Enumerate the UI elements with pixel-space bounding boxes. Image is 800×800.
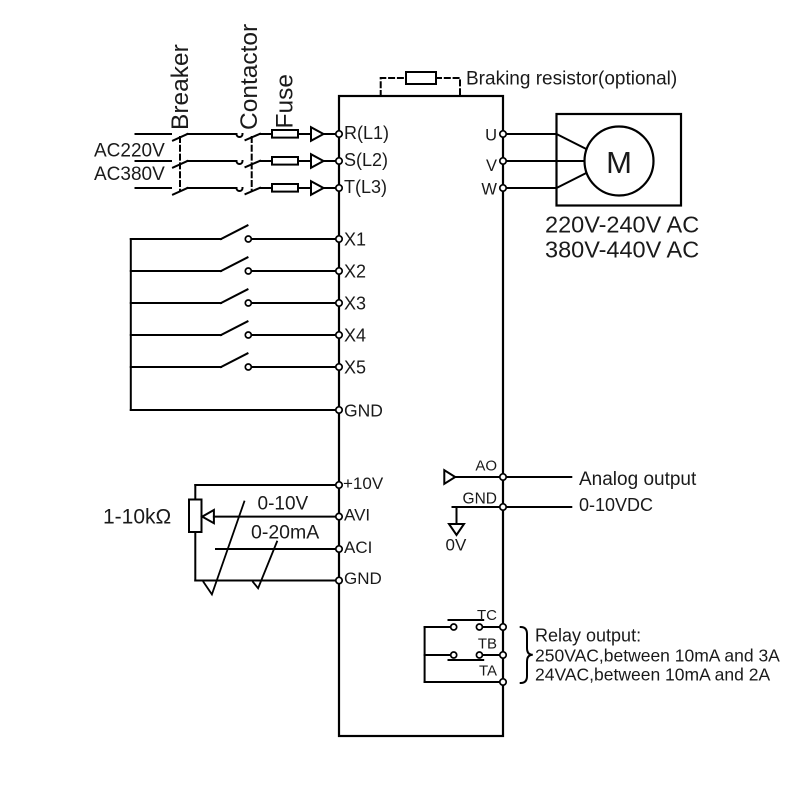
svg-text:1-10kΩ: 1-10kΩ	[103, 506, 171, 529]
contactor pole 3 arc	[237, 188, 243, 191]
svg-text:T(L3): T(L3)	[344, 177, 387, 197]
arrow into R(L1)	[311, 127, 324, 141]
breaker gang dashed link	[179, 137, 181, 191]
X input bus	[130, 239, 132, 410]
svg-text:380V-440V AC: 380V-440V AC	[545, 237, 699, 263]
relay TA wire	[425, 681, 501, 683]
potentiometer top leg	[194, 485, 196, 500]
relay TC contact bar	[449, 619, 484, 621]
wire GND analog	[195, 580, 337, 582]
wire X5	[252, 366, 337, 368]
breaker pole 3	[173, 188, 188, 195]
switch X2 contact	[245, 268, 251, 274]
svg-text:R(L1): R(L1)	[344, 123, 389, 143]
braking resistor RB	[406, 72, 436, 84]
inverter main box U1	[339, 96, 503, 736]
contactor pole 2 arc	[237, 161, 243, 164]
wire arrow-terminal S	[324, 160, 338, 162]
wire R contactor-fuse	[260, 133, 272, 135]
contactor pole 1 arc	[237, 134, 243, 137]
wire 0V drop	[456, 507, 458, 524]
wire GND digital	[131, 409, 337, 411]
svg-text:0-10V: 0-10V	[258, 493, 309, 514]
terminal ACI	[336, 546, 342, 552]
wire V out	[503, 160, 585, 162]
switch X5 wire	[131, 366, 221, 368]
terminal AVI	[336, 513, 342, 519]
terminal S(L2)	[336, 158, 342, 164]
terminal X4	[336, 332, 342, 338]
switch X3 contact	[245, 300, 251, 306]
svg-text:Fuse: Fuse	[272, 74, 299, 128]
wire R fuse-arrow	[298, 133, 311, 135]
wire T breaker-contactor	[188, 187, 237, 189]
svg-text:24VAC,between 10mA and 2A: 24VAC,between 10mA and 2A	[535, 665, 770, 685]
svg-text:Contactor: Contactor	[236, 24, 263, 130]
svg-text:X5: X5	[344, 358, 366, 378]
svg-text:ACI: ACI	[344, 538, 372, 557]
wire X3	[252, 302, 337, 304]
svg-text:GND: GND	[344, 401, 383, 421]
arrow into S(L2)	[311, 154, 324, 168]
switch X3 blade	[221, 289, 248, 303]
terminal X3	[336, 300, 342, 306]
wire ACI	[216, 548, 337, 550]
wire S fuse-arrow	[298, 160, 311, 162]
svg-text:TC: TC	[477, 607, 497, 624]
wire arrow-terminal T	[324, 187, 338, 189]
svg-text:Relay output:: Relay output:	[535, 626, 641, 646]
wire AVI	[214, 516, 337, 518]
switch X5 contact	[245, 364, 251, 370]
relay brace	[521, 627, 533, 683]
shield slash 2	[253, 542, 277, 589]
svg-text:S(L2): S(L2)	[344, 150, 388, 170]
potentiometer RP body	[189, 500, 202, 533]
svg-text:M: M	[606, 145, 632, 180]
fuse F3	[272, 184, 298, 192]
terminal GND right	[500, 504, 506, 510]
svg-text:+10V: +10V	[343, 474, 384, 493]
terminal AO	[500, 474, 506, 480]
svg-text:0V: 0V	[446, 536, 467, 555]
switch X2 blade	[221, 257, 248, 271]
wire X4	[252, 334, 337, 336]
svg-text:V: V	[486, 157, 497, 175]
terminal X1	[336, 236, 342, 242]
svg-text:AC220V: AC220V	[94, 141, 165, 162]
relay TC wire	[425, 626, 451, 628]
contactor pole 3 blade	[246, 188, 261, 194]
svg-text:GND: GND	[344, 569, 382, 588]
terminal T(L3)	[336, 185, 342, 191]
terminal TA	[500, 679, 506, 685]
potentiometer bottom leg	[194, 532, 196, 581]
0V arrow	[449, 524, 464, 535]
svg-text:GND: GND	[463, 491, 497, 508]
wire X2	[252, 270, 337, 272]
terminal V	[500, 158, 506, 164]
switch X5 blade	[221, 353, 248, 367]
svg-text:AVI: AVI	[344, 505, 370, 524]
breaker pole 2	[173, 161, 188, 168]
relay TC contact circles	[451, 624, 457, 630]
shield slash 1	[204, 502, 245, 595]
terminal TC	[500, 624, 506, 630]
wire input stub R	[136, 133, 172, 135]
switch X1 wire	[131, 238, 221, 240]
terminal X2	[336, 268, 342, 274]
svg-text:X2: X2	[344, 262, 366, 282]
terminal +10V	[336, 482, 342, 488]
contactor gang dashed link	[251, 137, 253, 191]
svg-text:W: W	[481, 180, 497, 198]
switch X4 contact	[245, 332, 251, 338]
switch X1 contact	[245, 236, 251, 242]
wire AO	[455, 476, 571, 478]
svg-text:TB: TB	[478, 636, 497, 653]
wire T fuse-arrow	[298, 187, 311, 189]
switch X4 blade	[221, 321, 248, 335]
fuse F2	[272, 157, 298, 165]
switch X1 blade	[221, 225, 248, 239]
wire S breaker-contactor	[188, 160, 237, 162]
wire input stub T	[136, 187, 172, 189]
svg-text:Breaker: Breaker	[167, 44, 194, 130]
svg-text:250VAC,between 10mA and 3A: 250VAC,between 10mA and 3A	[535, 645, 780, 665]
wire T contactor-fuse	[260, 187, 272, 189]
motor M1	[585, 127, 654, 196]
switch X2 wire	[131, 270, 221, 272]
svg-text:0-10VDC: 0-10VDC	[579, 495, 653, 515]
terminal X5	[336, 364, 342, 370]
motor box	[557, 114, 682, 206]
svg-text:Braking resistor(optional): Braking resistor(optional)	[466, 69, 677, 90]
wire S contactor-fuse	[260, 160, 272, 162]
terminal U	[500, 131, 506, 137]
relay TB wire	[425, 654, 451, 656]
contactor pole 1 blade	[246, 134, 261, 140]
relay TB contact bar	[449, 659, 484, 661]
AO source arrow	[444, 470, 455, 484]
breaker pole 1	[173, 134, 188, 141]
svg-text:X4: X4	[344, 326, 366, 346]
wire R breaker-contactor	[188, 133, 237, 135]
svg-text:U: U	[485, 127, 497, 145]
svg-text:Analog output: Analog output	[579, 469, 697, 490]
svg-text:AC380V: AC380V	[94, 164, 165, 185]
terminal W	[500, 185, 506, 191]
svg-text:X1: X1	[344, 230, 366, 250]
relay common bar	[424, 627, 426, 682]
wire W out	[503, 173, 587, 188]
svg-text:TA: TA	[479, 663, 497, 680]
switch X3 wire	[131, 302, 221, 304]
wire X1	[252, 238, 337, 240]
terminal TB	[500, 652, 506, 658]
terminal GND analog	[336, 577, 342, 583]
svg-text:0-20mA: 0-20mA	[251, 522, 319, 544]
svg-text:X3: X3	[344, 294, 366, 314]
terminal GND digital	[336, 407, 342, 413]
potentiometer wiper arrow	[202, 510, 214, 523]
svg-text:AO: AO	[475, 458, 497, 475]
wire U out	[503, 134, 587, 149]
relay TB contact circles	[451, 652, 457, 658]
wire arrow-terminal R	[324, 133, 338, 135]
braking resistor dashed wire left	[381, 78, 406, 96]
fuse F1	[272, 130, 298, 138]
svg-text:220V-240V AC: 220V-240V AC	[545, 212, 699, 238]
braking resistor dashed wire right	[436, 78, 460, 96]
switch X4 wire	[131, 334, 221, 336]
wire GND right	[453, 506, 572, 508]
arrow into T(L3)	[311, 181, 324, 195]
wire +10V	[195, 484, 337, 486]
terminal R(L1)	[336, 131, 342, 137]
wire input stub S	[136, 160, 172, 162]
contactor pole 2 blade	[246, 161, 261, 167]
